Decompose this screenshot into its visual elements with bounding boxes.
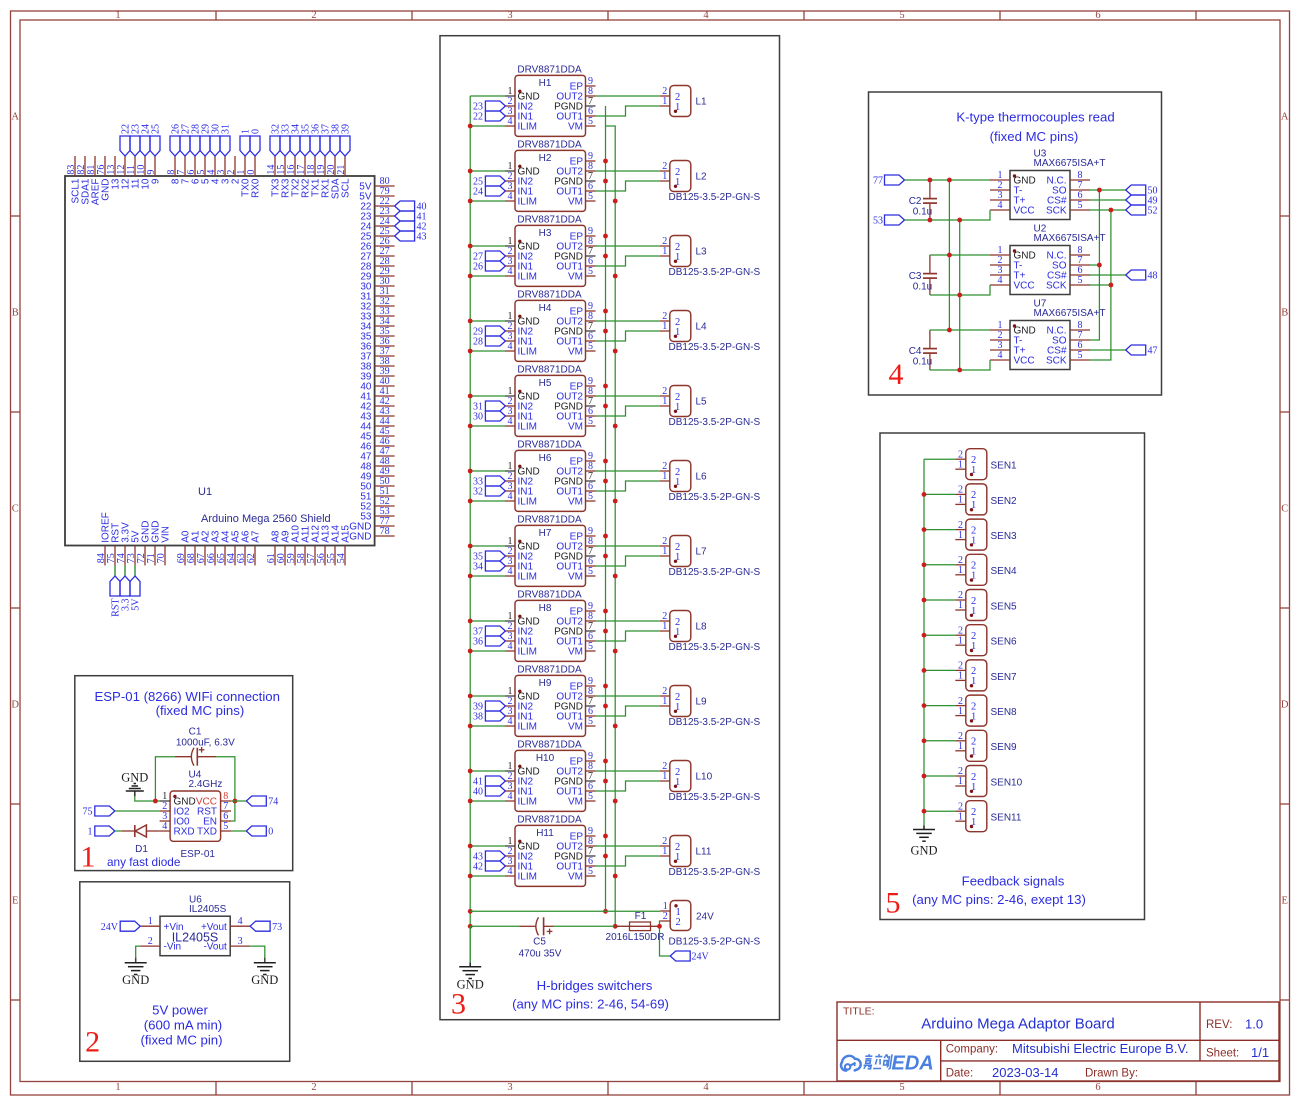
svg-text:VIN: VIN (161, 526, 172, 543)
svg-text:1: 1 (662, 621, 667, 632)
text fixed MC pins (box1) (156, 703, 245, 718)
svg-text:-Vout: -Vout (203, 942, 227, 953)
svg-text:SEN10: SEN10 (991, 777, 1023, 788)
svg-text:L5: L5 (696, 397, 708, 408)
svg-text:SEN5: SEN5 (991, 601, 1018, 612)
svg-text:40: 40 (473, 787, 483, 798)
svg-text:SEN9: SEN9 (991, 742, 1018, 753)
svg-text:2: 2 (311, 10, 316, 21)
connector L7 DB125-3.5-2P-GN-S (660, 536, 761, 578)
svg-text:ILIM: ILIM (518, 422, 537, 433)
wire SEN5 to bus (924, 599, 955, 601)
svg-text:1: 1 (662, 96, 667, 107)
svg-text:H9: H9 (539, 678, 552, 689)
svg-text:ILIM: ILIM (518, 497, 537, 508)
svg-text:ESP-01 (8266) WIFi connection: ESP-01 (8266) WIFi connection (94, 689, 279, 704)
connector SEN2 (955, 484, 1017, 515)
svg-text:5: 5 (1078, 350, 1083, 361)
svg-text:Company:: Company: (946, 1044, 998, 1056)
svg-text:1: 1 (662, 321, 667, 332)
text Feedback signals (962, 874, 1065, 889)
svg-text:DRV8871DDA: DRV8871DDA (517, 214, 582, 225)
svg-text:H7: H7 (539, 528, 552, 539)
wire GND left bus (box 3) (469, 96, 471, 926)
wire -Vout to ground (250, 946, 265, 958)
wire VM bus (box 3) (606, 126, 616, 926)
svg-text:L6: L6 (696, 472, 708, 483)
net flag 74 (246, 796, 278, 808)
capacitor C5 470u 35V (519, 917, 562, 959)
svg-text:VCC: VCC (1014, 206, 1035, 217)
wire H3 ILIM to bus (470, 275, 505, 277)
svg-text:2.4GHz: 2.4GHz (189, 779, 223, 790)
numeral 2 (85, 1026, 100, 1059)
net flag 53 (873, 215, 905, 227)
svg-text:36: 36 (473, 637, 483, 648)
svg-text:2023-03-14: 2023-03-14 (992, 1065, 1059, 1080)
svg-text:VM: VM (568, 347, 583, 358)
svg-text:54: 54 (336, 553, 347, 563)
connector SEN1 (955, 449, 1017, 480)
wire GND bus (box 4) (948, 180, 950, 330)
svg-text:DB125-3.5-2P-GN-S: DB125-3.5-2P-GN-S (669, 867, 761, 878)
svg-text:SEN6: SEN6 (991, 637, 1018, 648)
junction dots C5/F1 row (657, 924, 662, 929)
text any fast diode (107, 855, 181, 869)
svg-text:GND: GND (122, 973, 149, 987)
svg-text:+Vin: +Vin (164, 922, 184, 933)
junction dots box 1 (153, 799, 237, 804)
svg-text:0: 0 (268, 827, 273, 838)
wire C5 to VM junction (554, 925, 615, 927)
svg-text:L7: L7 (696, 547, 708, 558)
svg-text:5: 5 (588, 416, 593, 427)
svg-text:Sheet:: Sheet: (1206, 1048, 1239, 1060)
wire H7 ILIM to bus (470, 575, 505, 577)
svg-text:9: 9 (151, 178, 162, 184)
svg-text:2016L150DR: 2016L150DR (606, 932, 665, 943)
svg-text:2: 2 (663, 911, 668, 922)
svg-text:MAX6675ISA+T: MAX6675ISA+T (1034, 308, 1106, 319)
wire SEN bus (923, 459, 925, 825)
svg-text:5: 5 (899, 1082, 904, 1093)
svg-text:31: 31 (221, 124, 232, 134)
H-bridge driver H9 DRV8871DDA (505, 664, 596, 736)
svg-text:ILIM: ILIM (518, 347, 537, 358)
connector SEN4 (955, 554, 1017, 585)
svg-text:C: C (12, 504, 19, 515)
net flag 0 (246, 826, 273, 838)
svg-text:77: 77 (873, 176, 883, 187)
net flags 27/26 into H3 (473, 251, 505, 273)
wire PGND bus (box 3) (605, 106, 607, 911)
svg-text:SEN8: SEN8 (991, 707, 1018, 718)
ground symbol GND (box 3) (457, 926, 484, 991)
svg-text:1: 1 (662, 696, 667, 707)
svg-text:VM: VM (568, 872, 583, 883)
wire net77 row (905, 179, 991, 181)
svg-text:5: 5 (588, 191, 593, 202)
svg-text:(fixed MC pin): (fixed MC pin) (140, 1033, 222, 1048)
svg-text:4: 4 (508, 116, 513, 127)
wire H4 ILIM to bus (470, 350, 505, 352)
svg-text:D1: D1 (135, 844, 148, 855)
svg-text:L3: L3 (696, 247, 708, 258)
svg-text:4: 4 (703, 10, 709, 21)
wire SEN10 to bus (924, 775, 955, 777)
svg-text:MAX6675ISA+T: MAX6675ISA+T (1034, 233, 1106, 244)
svg-text:1: 1 (148, 916, 153, 927)
svg-text:4: 4 (508, 641, 513, 652)
svg-text:1/1: 1/1 (1251, 1045, 1269, 1060)
net port flags above U1 (nets 22-39, 1, 0) (120, 124, 352, 156)
svg-text:K-type thermocouples read: K-type thermocouples read (956, 110, 1114, 125)
svg-text:1: 1 (115, 1082, 120, 1093)
svg-text:1: 1 (662, 846, 667, 857)
svg-text:ILIM: ILIM (518, 572, 537, 583)
svg-text:5: 5 (588, 866, 593, 877)
svg-text:GND: GND (910, 844, 937, 858)
wire H10 ILIM to bus (470, 800, 505, 802)
wire H8 OUT2 to L8 pin2 (596, 620, 660, 622)
connector L6 DB125-3.5-2P-GN-S (660, 461, 761, 503)
wire to 24V flag (660, 926, 671, 956)
module U4 ESP-01 2.4GHz (160, 770, 231, 860)
junction dots SEN bus (922, 492, 927, 814)
svg-text:53: 53 (873, 216, 883, 227)
net flag 1 (88, 826, 115, 838)
svg-text:DB125-3.5-2P-GN-S: DB125-3.5-2P-GN-S (669, 417, 761, 428)
wire H3 OUT1 to L3 pin1 (596, 256, 660, 266)
svg-text:24: 24 (473, 187, 483, 198)
wire U2 SCK to bus (1090, 284, 1111, 286)
wire H11 GND to bus (470, 845, 505, 847)
svg-text:C3: C3 (909, 271, 922, 282)
wire H4 OUT1 to L4 pin1 (596, 331, 660, 341)
wire H3 OUT2 to L3 pin2 (596, 245, 660, 247)
ground symbol GND (box 5) (910, 826, 937, 858)
wire H5 OUT2 to L5 pin2 (596, 395, 660, 397)
net port flags below U1 (RST, 3.3, 5V) (110, 565, 142, 616)
svg-text:DRV8871DDA: DRV8871DDA (517, 514, 582, 525)
svg-text:F1: F1 (635, 911, 647, 922)
svg-text:5: 5 (223, 821, 228, 832)
net flags 33/32 into H6 (473, 476, 505, 498)
svg-text:Mitsubishi Electric Europe B.V: Mitsubishi Electric Europe B.V. (1012, 1041, 1189, 1056)
svg-text:SEN4: SEN4 (991, 566, 1018, 577)
svg-text:H4: H4 (539, 303, 552, 314)
svg-text:B: B (1281, 308, 1288, 319)
net flag 49 (1126, 195, 1158, 207)
net flags 41/40 into H10 (473, 776, 505, 798)
svg-text:5: 5 (886, 887, 901, 920)
wire VCC to flag74 (231, 800, 246, 802)
svg-text:0.1u: 0.1u (913, 357, 932, 368)
svg-text:H6: H6 (539, 453, 552, 464)
svg-text:ILIM: ILIM (518, 647, 537, 658)
svg-text:1: 1 (958, 671, 963, 682)
wire H5 OUT1 to L5 pin1 (596, 406, 660, 416)
svg-text:H5: H5 (539, 378, 552, 389)
svg-text:Arduino Mega Adaptor Board: Arduino Mega Adaptor Board (921, 1016, 1114, 1033)
net flag 77 (873, 175, 905, 187)
svg-text:(fixed MC pins): (fixed MC pins) (990, 129, 1079, 144)
svg-text:GND: GND (121, 771, 148, 785)
svg-text:0: 0 (246, 170, 257, 175)
svg-text:3: 3 (507, 1082, 512, 1093)
svg-text:A: A (1281, 112, 1289, 123)
svg-text:SEN7: SEN7 (991, 672, 1018, 683)
svg-text:VM: VM (568, 122, 583, 133)
H-bridge driver H1 DRV8871DDA (505, 64, 596, 136)
wire F1 to 24V pin2 (659, 921, 662, 926)
svg-text:ILIM: ILIM (518, 122, 537, 133)
wire H9 GND to bus (470, 695, 505, 697)
wire SEN4 to bus (924, 564, 955, 566)
wire H4 OUT2 to L4 pin2 (596, 320, 660, 322)
connector L5 DB125-3.5-2P-GN-S (660, 386, 761, 428)
svg-text:5: 5 (588, 716, 593, 727)
svg-text:ILIM: ILIM (518, 872, 537, 883)
svg-text:SEN3: SEN3 (991, 531, 1018, 542)
svg-text:DB125-3.5-2P-GN-S: DB125-3.5-2P-GN-S (669, 267, 761, 278)
svg-text:H3: H3 (539, 228, 552, 239)
text 600 mA min (144, 1018, 222, 1033)
svg-text:H11: H11 (536, 828, 554, 839)
wire U2 CS# to flag 48 (1090, 274, 1126, 276)
svg-text:78: 78 (380, 526, 390, 537)
svg-text:(any MC pins: 2-46, exept 13): (any MC pins: 2-46, exept 13) (912, 892, 1086, 907)
H-bridge driver H2 DRV8871DDA (505, 139, 596, 211)
wire VCC bus (box 4) (959, 220, 961, 370)
net flags 23/22 into H1 (473, 101, 505, 123)
net flag 50 (1126, 185, 1158, 197)
connector L4 DB125-3.5-2P-GN-S (660, 311, 761, 353)
svg-text:5: 5 (588, 791, 593, 802)
connector L11 DB125-3.5-2P-GN-S (660, 836, 761, 878)
svg-text:VM: VM (568, 272, 583, 283)
svg-text:H-bridges switchers: H-bridges switchers (537, 978, 653, 993)
wire H4 GND to bus (470, 320, 505, 322)
svg-text:Feedback signals: Feedback signals (962, 874, 1065, 889)
block outline box 2 (80, 882, 290, 1062)
svg-text:C1: C1 (189, 726, 202, 737)
connector SEN9 (955, 730, 1017, 761)
wire flag75 to IO2 (115, 810, 160, 812)
wire H6 OUT2 to L6 pin2 (596, 470, 660, 472)
svg-text:SCK: SCK (1046, 206, 1067, 217)
capacitor C3 0.1u (909, 255, 937, 295)
connector SEN5 (955, 590, 1017, 621)
svg-text:4: 4 (508, 566, 513, 577)
svg-text:VM: VM (568, 497, 583, 508)
svg-text:L1: L1 (696, 97, 708, 108)
net flag 48 (1126, 270, 1158, 282)
svg-text:DB125-3.5-2P-GN-S: DB125-3.5-2P-GN-S (669, 192, 761, 203)
block outline box 4 (869, 92, 1162, 395)
svg-text:VM: VM (568, 797, 583, 808)
wire SEN9 to bus (924, 740, 955, 742)
svg-text:DB125-3.5-2P-GN-S: DB125-3.5-2P-GN-S (669, 567, 761, 578)
wire SEN11 to bus (924, 810, 955, 812)
svg-text:24V: 24V (692, 952, 710, 963)
svg-text:1: 1 (958, 495, 963, 506)
H-bridge driver H4 DRV8871DDA (505, 289, 596, 361)
wire H7 GND to bus (470, 545, 505, 547)
numeral 1 (81, 840, 96, 873)
connector 24V DB125-3.5-2P-GN-S (660, 901, 760, 948)
net flags 39/38 into H9 (473, 701, 505, 723)
svg-text:1: 1 (662, 471, 667, 482)
svg-text:L10: L10 (696, 772, 713, 783)
text any MC pins 2-46 54-69 (512, 997, 669, 1012)
net flag 24V (box 2) (101, 921, 140, 933)
svg-text:1: 1 (958, 811, 963, 822)
svg-text:Arduino Mega 2560 Shield: Arduino Mega 2560 Shield (201, 513, 331, 525)
numeral 5 (886, 887, 901, 920)
svg-text:1: 1 (662, 246, 667, 257)
svg-text:74: 74 (268, 797, 278, 808)
svg-text:75: 75 (83, 807, 93, 818)
connector SEN10 (955, 766, 1022, 797)
wire H5 ILIM to bus (470, 425, 505, 427)
title block (837, 1002, 1279, 1081)
wire H9 OUT1 to L9 pin1 (596, 706, 660, 716)
wire H7 OUT2 to L7 pin2 (596, 545, 660, 547)
wire H6 ILIM to bus (470, 500, 505, 502)
net flag 75 (83, 806, 115, 818)
svg-text:5: 5 (1078, 200, 1083, 211)
wire SEN1 to bus (924, 458, 955, 460)
IC U3 MAX6675ISA+T (990, 149, 1105, 220)
wire U3 SO to flag 50 (1090, 189, 1126, 191)
svg-text:22: 22 (473, 112, 483, 123)
svg-text:TXD: TXD (197, 827, 217, 838)
block outline box 1 (75, 676, 293, 871)
wire H1 OUT1 to L1 pin1 (596, 106, 660, 116)
svg-text:any fast diode: any fast diode (107, 855, 181, 869)
wire H10 OUT1 to L10 pin1 (596, 781, 660, 791)
H-bridge driver H11 DRV8871DDA (505, 814, 596, 886)
svg-text:2: 2 (676, 917, 681, 928)
svg-text:0.1u: 0.1u (913, 207, 932, 218)
svg-text:H8: H8 (539, 603, 552, 614)
wire flag1 to D1 (115, 830, 122, 832)
svg-text:E: E (12, 896, 18, 907)
svg-text:26: 26 (473, 262, 483, 273)
svg-text:TITLE:: TITLE: (843, 1006, 875, 1018)
wire U7 GND row (930, 329, 990, 331)
svg-text:GND: GND (349, 532, 371, 543)
svg-text:4: 4 (508, 416, 513, 427)
text K-type thermocouples read (956, 110, 1114, 125)
svg-text:1: 1 (958, 565, 963, 576)
svg-text:SCL: SCL (341, 178, 352, 198)
svg-text:VM: VM (568, 647, 583, 658)
svg-text:DB125-3.5-2P-GN-S: DB125-3.5-2P-GN-S (669, 937, 761, 948)
wire SEN7 to bus (924, 669, 955, 671)
svg-text:4: 4 (998, 200, 1003, 211)
svg-text:5: 5 (899, 10, 904, 21)
svg-text:IL2405S: IL2405S (189, 904, 227, 915)
svg-text:1: 1 (958, 635, 963, 646)
wire net53 row (905, 210, 991, 220)
svg-text:SCK: SCK (1046, 281, 1067, 292)
svg-text:3: 3 (507, 10, 512, 21)
svg-text:DB125-3.5-2P-GN-S: DB125-3.5-2P-GN-S (669, 717, 761, 728)
svg-text:2: 2 (85, 1026, 100, 1059)
wire H6 OUT1 to L6 pin1 (596, 481, 660, 491)
svg-text:L8: L8 (696, 622, 708, 633)
wire H1 ILIM to bus (470, 125, 505, 127)
svg-text:470u 35V: 470u 35V (519, 948, 562, 959)
svg-text:4: 4 (508, 341, 513, 352)
text fixed MC pins (box4) (990, 129, 1079, 144)
svg-text:Drawn By:: Drawn By: (1085, 1068, 1138, 1080)
svg-text:6: 6 (1095, 10, 1100, 21)
svg-text:1: 1 (81, 840, 96, 873)
svg-text:L4: L4 (696, 322, 708, 333)
svg-text:43: 43 (417, 232, 427, 243)
svg-text:DRV8871DDA: DRV8871DDA (517, 739, 582, 750)
wire H5 GND to bus (470, 395, 505, 397)
svg-text:DB125-3.5-2P-GN-S: DB125-3.5-2P-GN-S (669, 792, 761, 803)
H-bridge driver H6 DRV8871DDA (505, 439, 596, 511)
svg-text:5: 5 (588, 491, 593, 502)
text H-bridges switchers (537, 978, 653, 993)
svg-text:H10: H10 (536, 753, 555, 764)
connector L10 DB125-3.5-2P-GN-S (660, 761, 761, 803)
text fixed MC pin (140, 1033, 222, 1048)
svg-text:47: 47 (1148, 346, 1158, 357)
svg-text:4: 4 (889, 358, 904, 391)
svg-text:4: 4 (162, 821, 167, 832)
svg-text:5: 5 (588, 341, 593, 352)
wire H9 OUT2 to L9 pin2 (596, 695, 660, 697)
wire H7 OUT1 to L7 pin1 (596, 556, 660, 566)
text ESP-01 WIFi connection (94, 689, 279, 704)
H-bridge driver H7 DRV8871DDA (505, 514, 596, 586)
svg-text:5V power: 5V power (152, 1002, 208, 1017)
svg-text:30: 30 (473, 412, 483, 423)
wire GND sym to U4 pin1 (135, 791, 160, 801)
svg-text:1: 1 (662, 171, 667, 182)
svg-text:4: 4 (998, 275, 1003, 286)
svg-text:1: 1 (958, 459, 963, 470)
wire H2 GND to bus (470, 170, 505, 172)
H-bridge driver H10 DRV8871DDA (505, 739, 596, 811)
svg-text:38: 38 (473, 712, 483, 723)
connector SEN11 (955, 801, 1022, 832)
ground symbol GND (box 1) (121, 771, 148, 792)
svg-text:RXD: RXD (174, 827, 195, 838)
svg-text:DRV8871DDA: DRV8871DDA (517, 664, 582, 675)
net flag 52 (1126, 205, 1158, 217)
block outline box 5 (880, 433, 1145, 920)
svg-text:1: 1 (958, 741, 963, 752)
svg-text:5: 5 (588, 266, 593, 277)
svg-text:DRV8871DDA: DRV8871DDA (517, 64, 582, 75)
svg-text:VCC: VCC (1014, 281, 1035, 292)
svg-text:4: 4 (508, 791, 513, 802)
connector L9 DB125-3.5-2P-GN-S (660, 686, 761, 728)
wire H8 OUT1 to L8 pin1 (596, 631, 660, 641)
net flags 25/24 into H2 (473, 176, 505, 198)
svg-text:3: 3 (451, 988, 466, 1021)
svg-text:DRV8871DDA: DRV8871DDA (517, 814, 582, 825)
svg-text:1: 1 (662, 396, 667, 407)
svg-text:5: 5 (588, 566, 593, 577)
